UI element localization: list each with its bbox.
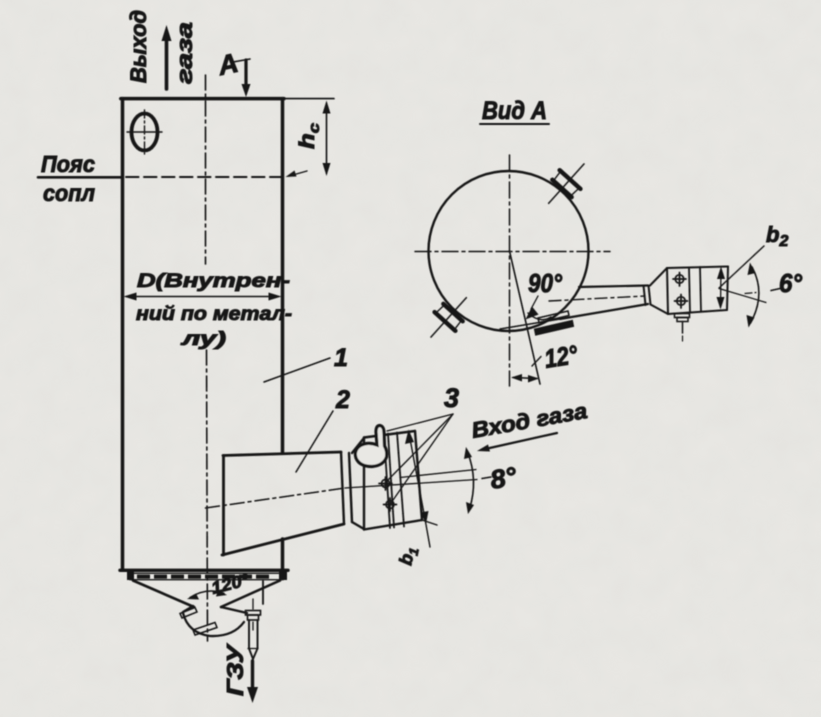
vertical centerline	[509, 155, 511, 386]
part label 3 with leaders	[386, 383, 459, 503]
b2 label	[719, 222, 788, 288]
svg-text:90°: 90°	[528, 268, 563, 298]
bolt mark upper	[379, 477, 392, 490]
manhole oval	[127, 110, 162, 154]
svg-text:D(Внутрен-: D(Внутрен-	[137, 271, 290, 292]
D dimension text	[136, 271, 292, 350]
tangent pad lower bar	[535, 321, 573, 335]
part label 1	[264, 344, 348, 382]
view bolt upper	[673, 273, 686, 287]
svg-text:Вид А: Вид А	[482, 97, 547, 125]
vessel shell outline	[120, 99, 288, 571]
gas inlet label	[470, 398, 590, 452]
nozzle belt label	[41, 151, 95, 206]
12 degree line	[510, 251, 541, 384]
hc dimension	[296, 101, 331, 177]
cone right slope	[221, 581, 280, 608]
part label 2	[296, 386, 350, 472]
svg-text:ГЗУ: ГЗУ	[222, 642, 248, 696]
nozzle block part3	[364, 431, 422, 530]
6 degree label	[771, 268, 803, 298]
view duct axis	[549, 296, 645, 301]
gas outlet text	[126, 10, 197, 84]
b1 dimension	[395, 430, 430, 568]
bolt mark lower	[384, 498, 397, 511]
horizontal centerline	[415, 251, 610, 253]
flap plate 1	[180, 608, 197, 619]
vessel centerline	[205, 75, 207, 264]
top edge extension line	[283, 98, 335, 100]
tangent pad upper bar	[538, 311, 569, 323]
b2 dimension arrows	[717, 267, 726, 310]
gas outlet arrow	[162, 25, 172, 89]
duct axis centerline	[206, 488, 346, 508]
90 degree label	[526, 268, 563, 320]
duct bottom tangent line	[500, 319, 560, 329]
stub flange bottom-left	[421, 288, 477, 346]
nozzle block inner lines	[384, 433, 404, 529]
view block inner lines	[689, 267, 701, 313]
hc pointer arrow	[286, 171, 308, 178]
duct flange double lines	[341, 438, 364, 529]
block bottom extension	[422, 520, 437, 525]
flap plate 2	[193, 623, 217, 636]
vessel centerline lower	[207, 350, 208, 641]
8 degree arc	[464, 447, 474, 514]
svg-text:Выход: Выход	[126, 10, 151, 83]
svg-text:1: 1	[334, 344, 348, 372]
svg-text:газа: газа	[172, 22, 197, 84]
12 degree dimension	[511, 357, 541, 383]
svg-text:ний по метал-: ний по метал-	[136, 304, 292, 325]
view A title	[480, 97, 549, 125]
discharge pipe flange	[246, 611, 261, 621]
svg-text:2: 2	[335, 386, 350, 414]
duct axis extension	[345, 480, 477, 489]
nozzle belt fraction line	[38, 176, 122, 179]
svg-text:3: 3	[444, 383, 459, 413]
nozzle belt level dashed line	[126, 176, 282, 178]
hanging bolt under block	[675, 314, 690, 342]
inlet duct part2	[222, 452, 344, 555]
GZU arrow	[247, 661, 258, 703]
hook detail on block	[355, 426, 386, 467]
8 degree label	[482, 461, 519, 495]
view duct bottom edge	[560, 304, 648, 319]
view bolt lower	[675, 295, 688, 309]
view-A arrow	[215, 48, 251, 97]
120 degree arc	[187, 590, 227, 600]
svg-text:лу): лу)	[180, 329, 226, 350]
hanger line	[262, 581, 264, 604]
discharge pipe	[248, 620, 258, 659]
pipe centerline tick	[252, 599, 254, 609]
flare cone	[650, 268, 668, 314]
svg-text:сопл: сопл	[43, 180, 95, 206]
D dimension arrow	[124, 293, 282, 301]
svg-text:12°: 12°	[542, 339, 580, 374]
svg-text:6°: 6°	[779, 268, 803, 298]
view duct top edge	[579, 286, 648, 288]
svg-text:Пояс: Пояс	[41, 151, 95, 177]
stub flange top-right	[538, 155, 594, 213]
view A circle	[429, 171, 589, 331]
6 degree arc	[747, 263, 759, 328]
bottom flange band	[127, 571, 287, 580]
6 degree lines	[719, 289, 766, 303]
ash bowl	[183, 606, 247, 636]
view nozzle block	[667, 267, 728, 315]
cone left slope	[133, 581, 194, 608]
taper reference line	[400, 470, 476, 478]
duct ring flange	[644, 286, 651, 306]
